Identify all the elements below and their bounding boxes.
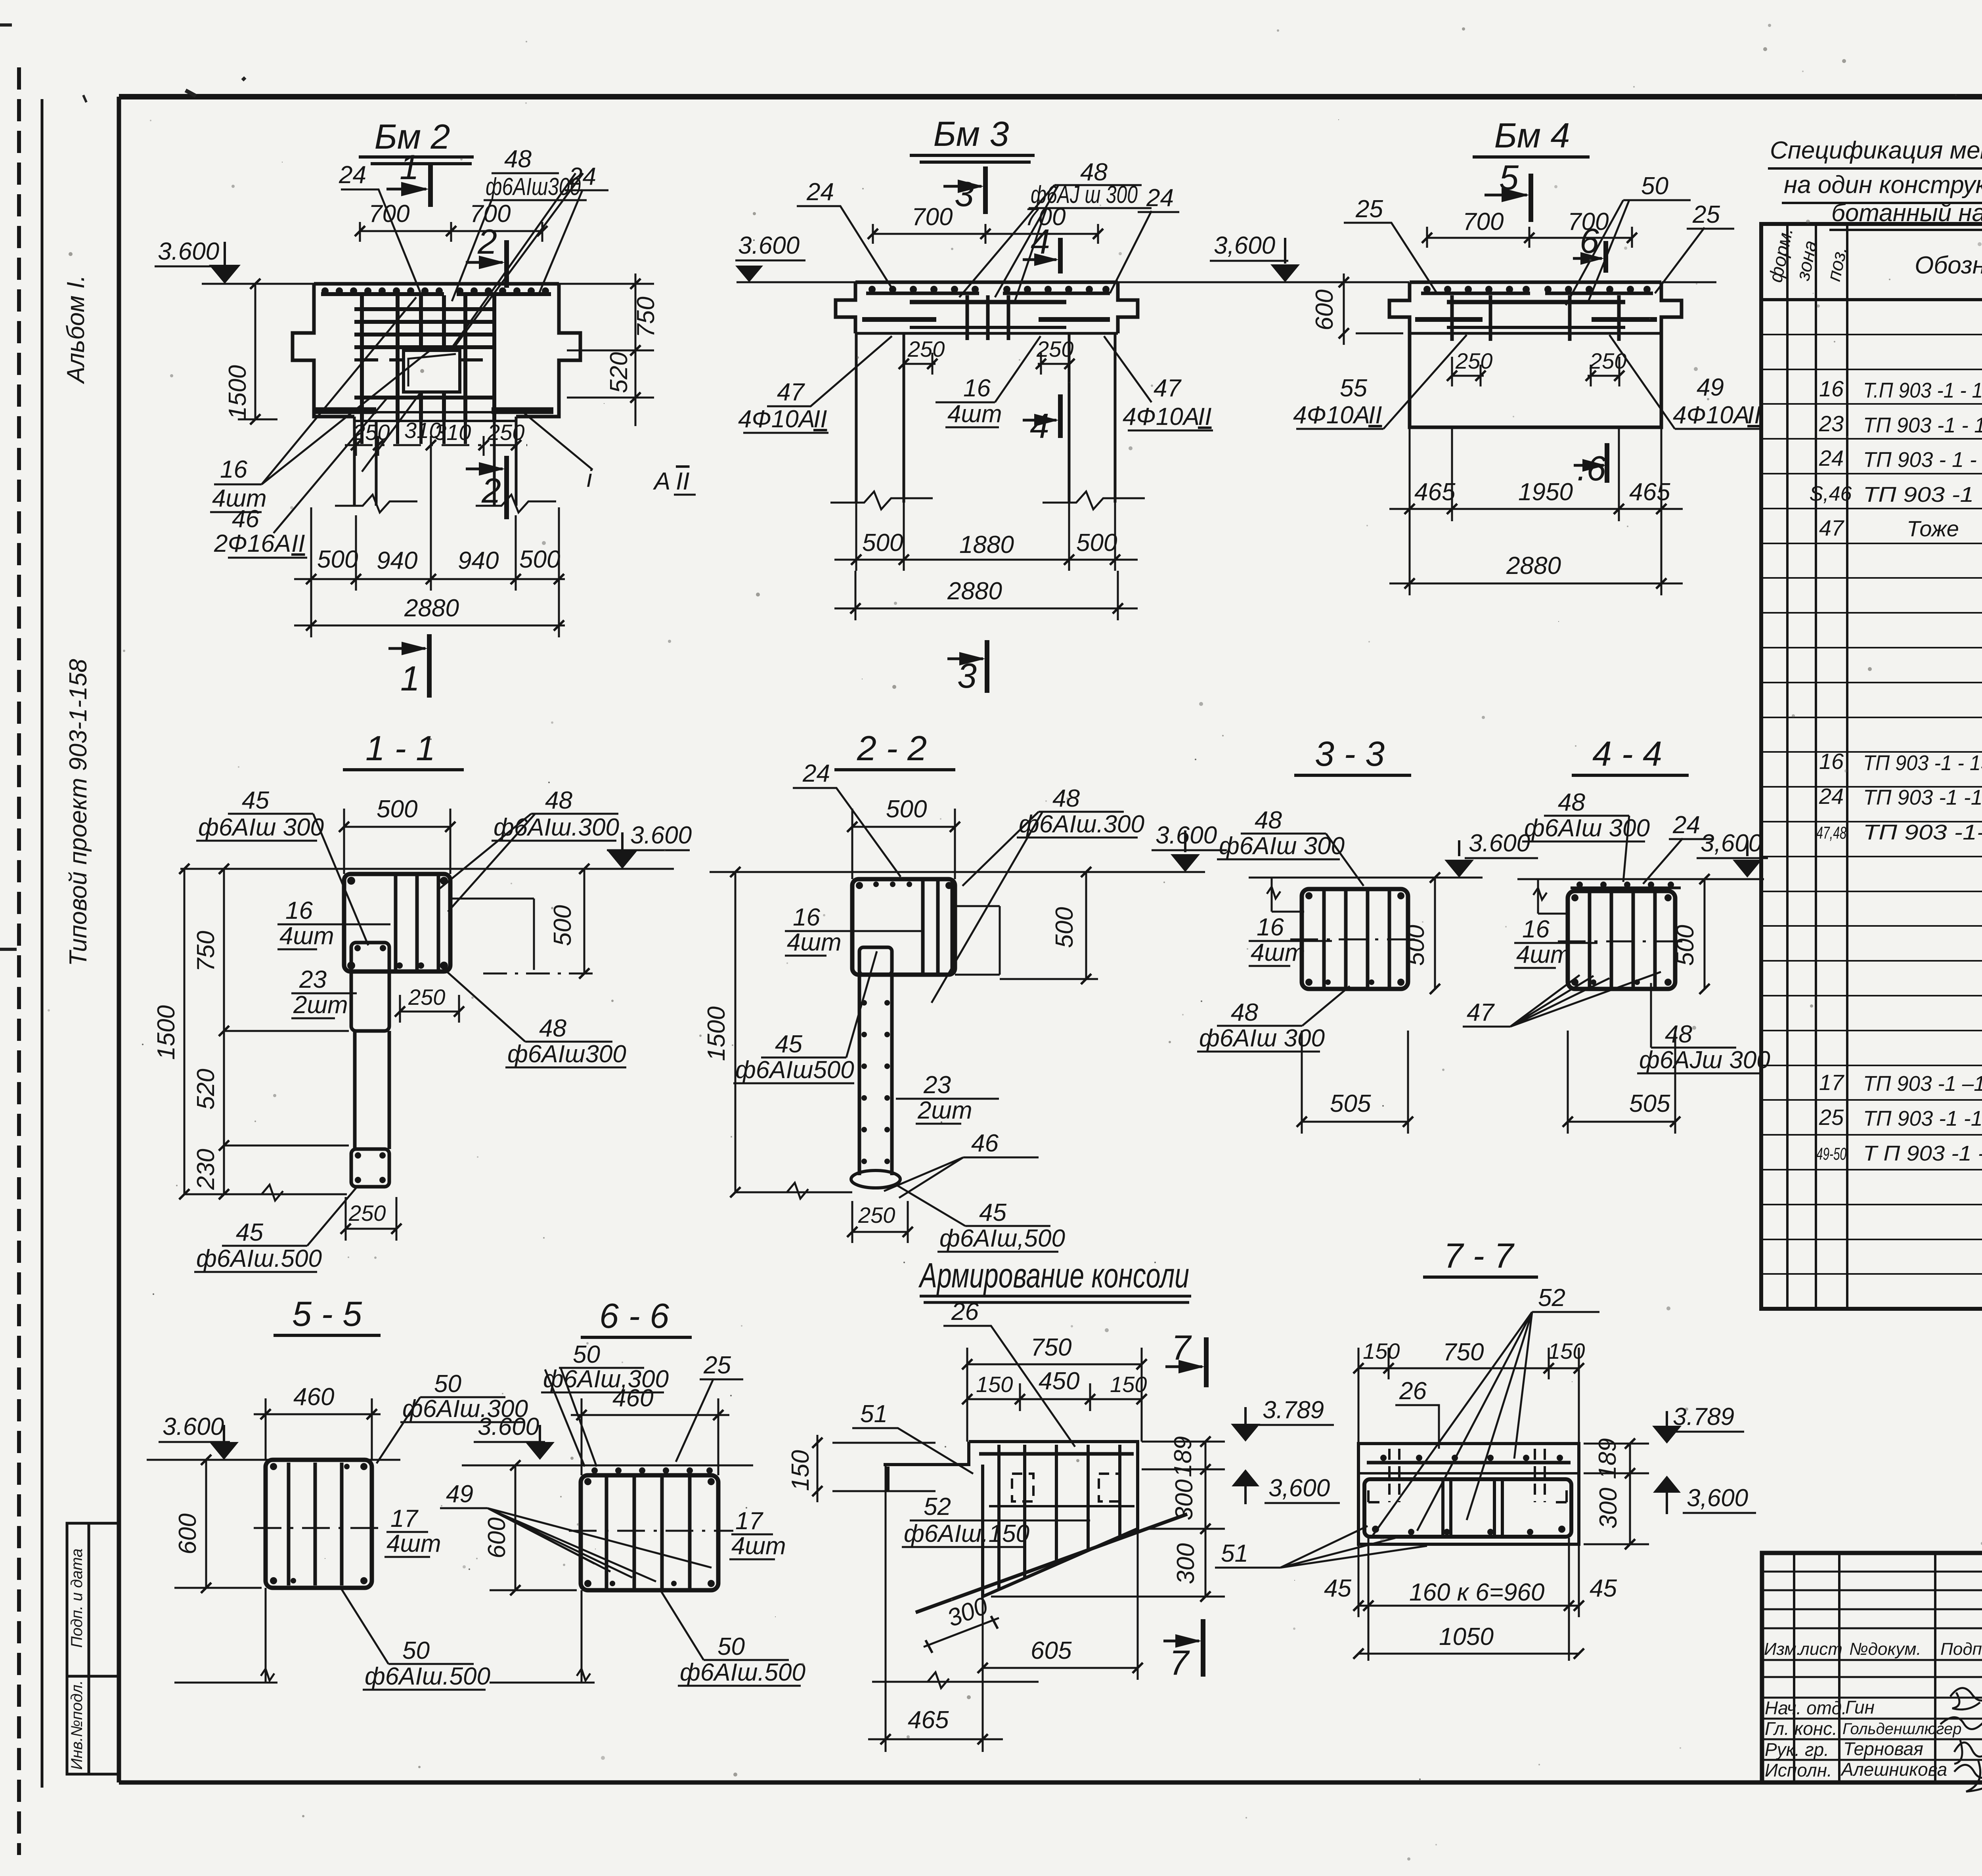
svg-text:№докум.: №докум. <box>1849 1639 1921 1659</box>
svg-text:750: 750 <box>1031 1334 1071 1361</box>
svg-text:500: 500 <box>886 796 927 823</box>
svg-text:Альбом I.: Альбом I. <box>62 275 90 384</box>
svg-text:48: 48 <box>1665 1021 1692 1048</box>
mid axis <box>1558 941 1685 943</box>
svg-text:3.600: 3.600 <box>163 1413 224 1440</box>
section mark 6 bottom <box>1605 443 1609 483</box>
svg-text:на один конструктивный эл: на один конструктивный элемент, разра- <box>1784 171 1982 199</box>
svg-text:II: II <box>813 405 827 433</box>
svg-text:ф6АIш 300: ф6АIш 300 <box>1199 1025 1325 1052</box>
svg-text:А: А <box>652 468 670 495</box>
svg-text:.6: .6 <box>1577 449 1606 488</box>
window <box>404 350 460 392</box>
level line <box>737 281 1288 283</box>
svg-text:5: 5 <box>1499 158 1519 197</box>
dims 189 300 right <box>1584 1444 1649 1544</box>
lower slab band <box>354 412 516 421</box>
svg-text:520: 520 <box>605 352 633 393</box>
dim 500 right <box>1704 879 1706 989</box>
svg-text:Инв.№подл.: Инв.№подл. <box>68 1680 86 1770</box>
dims 189 300 300 right <box>991 1442 1225 1597</box>
svg-text:50: 50 <box>1641 172 1668 200</box>
svg-text:ф6АIш.500: ф6АIш.500 <box>365 1663 490 1690</box>
level line <box>202 283 637 285</box>
svg-text:ТП 903 -1 -153-КЖН - С 29: ТП 903 -1 -153-КЖН - С 29 <box>1863 1107 1982 1130</box>
svg-text:520: 520 <box>192 1069 220 1109</box>
svg-text:4шт: 4шт <box>279 922 334 950</box>
svg-text:4шт: 4шт <box>787 929 842 956</box>
svg-text:23: 23 <box>923 1071 951 1099</box>
top rebar dots <box>321 287 549 294</box>
svg-text:3,600: 3,600 <box>1701 830 1762 857</box>
svg-text:4Ф10А: 4Ф10А <box>1123 403 1200 430</box>
svg-text:3.600: 3.600 <box>738 232 800 259</box>
svg-text:16: 16 <box>1522 916 1550 943</box>
svg-text:16: 16 <box>793 904 820 931</box>
svg-text:4Ф10А: 4Ф10А <box>1673 402 1750 429</box>
svg-text:3: 3 <box>955 174 974 214</box>
svg-text:4шт: 4шт <box>1251 939 1305 966</box>
svg-text:47,48: 47,48 <box>1816 823 1846 843</box>
mid axis <box>1290 939 1419 941</box>
svg-text:3.789: 3.789 <box>1673 1403 1734 1430</box>
slab rebar <box>910 300 1066 304</box>
svg-text:ф6АIш 300: ф6АIш 300 <box>1219 832 1345 860</box>
svg-text:24: 24 <box>806 178 834 206</box>
level line <box>1517 878 1764 880</box>
svg-text:26: 26 <box>1399 1377 1427 1405</box>
svg-text:ф6АJш 300: ф6АJш 300 <box>1639 1046 1770 1074</box>
dim chain left <box>184 869 186 1194</box>
svg-text:48: 48 <box>1052 785 1080 812</box>
svg-text:45: 45 <box>242 787 269 814</box>
dim 500 right <box>584 869 585 973</box>
svg-text:17: 17 <box>390 1505 419 1532</box>
leg break marks <box>830 491 1145 509</box>
svg-text:2: 2 <box>481 471 501 510</box>
svg-text:450: 450 <box>1039 1367 1079 1395</box>
svg-text:1050: 1050 <box>1439 1623 1494 1650</box>
inner thin line <box>41 99 44 1788</box>
svg-text:3.789: 3.789 <box>1263 1396 1324 1424</box>
svg-text:17: 17 <box>1819 1070 1844 1095</box>
section mark 6 top <box>1603 241 1608 273</box>
svg-text:16: 16 <box>963 375 991 402</box>
svg-text:45: 45 <box>979 1199 1006 1226</box>
svg-text:600: 600 <box>483 1517 511 1558</box>
svg-text:48: 48 <box>545 787 572 814</box>
mid bar <box>989 1505 1134 1507</box>
stirrup box <box>1568 891 1675 989</box>
console outline <box>884 1442 1138 1597</box>
svg-text:ТП 903 -1 - 153- КЖН- С 27: ТП 903 -1 - 153- КЖН- С 27 <box>1863 413 1982 437</box>
svg-text:26: 26 <box>951 1298 979 1325</box>
svg-text:750: 750 <box>192 931 220 971</box>
svg-text:300: 300 <box>1172 1543 1200 1584</box>
svg-text:ф6АIш,500: ф6АIш,500 <box>939 1225 1065 1252</box>
svg-text:600: 600 <box>1311 289 1338 330</box>
svg-text:250: 250 <box>858 1203 895 1228</box>
svg-text:48: 48 <box>539 1015 566 1042</box>
svg-text:ф6АIш 300: ф6АIш 300 <box>1524 815 1650 842</box>
dim 600 left <box>205 1460 207 1588</box>
svg-text:3,600: 3,600 <box>1268 1474 1330 1502</box>
stirrup box <box>266 1460 372 1588</box>
svg-text:49-50: 49-50 <box>1816 1144 1846 1164</box>
thick bars 46 <box>316 407 553 414</box>
svg-text:Подп.: Подп. <box>1940 1639 1982 1659</box>
svg-text:24: 24 <box>568 163 596 190</box>
svg-text:46: 46 <box>232 505 259 533</box>
svg-text:460: 460 <box>612 1385 653 1412</box>
svg-text:ТП 903 -1- 158 КЖ -30: ТП 903 -1- 158 КЖ -30 <box>1863 820 1982 844</box>
level line <box>462 1465 753 1467</box>
svg-text:23: 23 <box>299 966 327 993</box>
svg-text:47: 47 <box>777 379 805 406</box>
svg-text:3: 3 <box>957 656 977 695</box>
svg-text:52: 52 <box>1538 1284 1565 1312</box>
svg-text:2Ф16А: 2Ф16А <box>214 530 291 557</box>
svg-text:Рук. гр.: Рук. гр. <box>1765 1739 1829 1760</box>
svg-text:ф6АIш.500: ф6АIш.500 <box>196 1245 322 1272</box>
svg-text:ф6АIш300: ф6АIш300 <box>507 1040 626 1068</box>
svg-text:Тоже: Тоже <box>1907 516 1959 541</box>
legs <box>856 333 1115 503</box>
dim 500 right <box>1434 878 1436 989</box>
svg-text:Армирование консоли: Армирование консоли <box>918 1256 1189 1295</box>
svg-text:Гин: Гин <box>1845 1697 1875 1717</box>
svg-text:ТП 903 - 1 - 153- КЖИ-С28: ТП 903 - 1 - 153- КЖИ-С28 <box>1863 448 1982 472</box>
svg-text:3.600: 3.600 <box>478 1413 539 1440</box>
svg-text:505: 505 <box>1330 1090 1371 1117</box>
svg-text:150: 150 <box>1363 1339 1400 1363</box>
svg-text:Обозначение: Обозначение <box>1915 252 1982 279</box>
svg-text:Бм 4: Бм 4 <box>1494 116 1570 155</box>
svg-text:940: 940 <box>377 547 417 574</box>
svg-text:1: 1 <box>400 659 420 698</box>
svg-text:4Ф10А: 4Ф10А <box>738 405 815 433</box>
svg-text:940: 940 <box>458 547 499 574</box>
svg-text:Исполн.: Исполн. <box>1765 1760 1832 1780</box>
svg-text:Терновая: Терновая <box>1843 1738 1923 1759</box>
svg-text:Изм.: Изм. <box>1764 1639 1801 1659</box>
svg-text:700: 700 <box>470 200 511 228</box>
slab rebar <box>1447 300 1625 304</box>
svg-text:310: 310 <box>434 420 471 445</box>
svg-text:Нач. отд.: Нач. отд. <box>1765 1698 1847 1718</box>
sheet frame <box>119 94 1982 99</box>
svg-text:ф6АIш.500: ф6АIш.500 <box>680 1659 805 1686</box>
svg-text:25: 25 <box>1355 195 1383 223</box>
top dots <box>1576 882 1674 888</box>
svg-text:Т.П 903 -1 - 153- КЖИ - КР19: Т.П 903 -1 - 153- КЖИ - КР19 <box>1863 379 1982 402</box>
body outline <box>293 284 580 417</box>
svg-text:750: 750 <box>1443 1339 1484 1366</box>
svg-text:150: 150 <box>1110 1372 1147 1397</box>
svg-text:3 - 3: 3 - 3 <box>1315 734 1385 773</box>
svg-text:23: 23 <box>1819 411 1844 436</box>
svg-text:3,600: 3,600 <box>1687 1484 1748 1512</box>
svg-text:3,600: 3,600 <box>1214 232 1275 259</box>
svg-text:4: 4 <box>1031 222 1050 261</box>
svg-text:160 к 6=960: 160 к 6=960 <box>1409 1579 1544 1606</box>
svg-text:500: 500 <box>519 546 560 573</box>
svg-text:1 - 1: 1 - 1 <box>365 729 435 768</box>
title block frame <box>1762 1553 1982 1782</box>
svg-text:4шт: 4шт <box>947 400 1002 428</box>
inv box <box>67 1523 119 1774</box>
svg-text:2шт: 2шт <box>917 1097 972 1124</box>
svg-text:25: 25 <box>1819 1105 1844 1130</box>
dim 150 left <box>817 1435 936 1502</box>
level line <box>1249 877 1483 879</box>
svg-text:24: 24 <box>1819 446 1844 470</box>
svg-text:16: 16 <box>285 897 313 924</box>
svg-text:750: 750 <box>632 296 660 337</box>
svg-text:S,46: S,46 <box>1810 482 1852 505</box>
mid axis <box>254 1527 386 1529</box>
top rebar <box>1367 1461 1571 1465</box>
diagonal bar 51 <box>916 1514 1187 1612</box>
svg-text:189: 189 <box>1169 1436 1197 1477</box>
svg-text:25: 25 <box>703 1352 731 1379</box>
svg-text:ф6АIш.300: ф6АIш.300 <box>1019 811 1144 838</box>
svg-text:700: 700 <box>369 200 409 228</box>
lower ext <box>261 1588 274 1683</box>
level line <box>1235 281 1716 283</box>
svg-text:150: 150 <box>787 1450 814 1491</box>
svg-text:Типовой проект 903-1-158: Типовой проект 903-1-158 <box>65 659 92 966</box>
dim 600 left <box>1344 273 1403 345</box>
svg-text:Гл. конс.: Гл. конс. <box>1765 1718 1837 1739</box>
svg-text:48: 48 <box>1255 807 1282 834</box>
svg-text:189: 189 <box>1594 1438 1621 1479</box>
column strip <box>355 1031 389 1149</box>
svg-text:1880: 1880 <box>959 531 1014 558</box>
top bar in slab <box>979 1452 1134 1456</box>
top dots <box>591 1467 713 1474</box>
svg-text:500: 500 <box>1051 907 1078 948</box>
break mark left <box>1533 879 1547 914</box>
top rebar dots <box>869 286 1110 293</box>
svg-text:7: 7 <box>1169 1643 1190 1682</box>
svg-text:45: 45 <box>1590 1575 1617 1602</box>
svg-text:700: 700 <box>1463 208 1504 235</box>
svg-text:ТП 903 -1 - 15 3-КЖН -КР 19: ТП 903 -1 - 15 3-КЖН -КР 19 <box>1863 751 1982 775</box>
svg-text:1: 1 <box>400 147 419 187</box>
stirrup box <box>1302 889 1408 989</box>
level line <box>710 871 1205 873</box>
svg-text:505: 505 <box>1629 1090 1670 1117</box>
svg-text:4шт: 4шт <box>1516 941 1571 968</box>
svg-text:4 - 4: 4 - 4 <box>1592 734 1662 773</box>
svg-text:1500: 1500 <box>224 365 251 420</box>
svg-text:50: 50 <box>717 1633 745 1660</box>
stirrup box inner <box>1364 1479 1571 1537</box>
section mark 7 top <box>1204 1337 1209 1387</box>
svg-text:Бм 3: Бм 3 <box>934 114 1009 153</box>
level line <box>180 868 674 870</box>
svg-text:2880: 2880 <box>1506 552 1561 579</box>
svg-text:16: 16 <box>1819 749 1844 774</box>
dim 1500 left <box>238 284 313 419</box>
table frame <box>1761 224 1982 1309</box>
inner box 45 <box>351 943 389 1031</box>
svg-text:1950: 1950 <box>1518 478 1573 506</box>
svg-text:230: 230 <box>192 1149 220 1190</box>
svg-text:605: 605 <box>1031 1637 1072 1664</box>
svg-text:465: 465 <box>908 1706 949 1734</box>
svg-text:500: 500 <box>862 529 903 556</box>
svg-text:ф6АIш500: ф6АIш500 <box>735 1056 854 1084</box>
svg-text:51: 51 <box>860 1400 888 1428</box>
level line <box>147 1459 400 1461</box>
svg-text:500: 500 <box>1672 925 1699 966</box>
row rules <box>1761 335 1982 1274</box>
section mark 2 bottom <box>504 456 509 519</box>
svg-text:2880: 2880 <box>947 578 1002 605</box>
svg-text:ф6АIш.150: ф6АIш.150 <box>904 1520 1029 1547</box>
section mark 1 bottom <box>427 634 432 698</box>
body outline <box>1389 282 1682 427</box>
svg-text:16: 16 <box>1819 376 1844 401</box>
dim 600 left <box>515 1465 517 1590</box>
svg-text:24: 24 <box>1146 184 1174 212</box>
svg-text:465: 465 <box>1629 478 1670 506</box>
svg-text:5 - 5: 5 - 5 <box>292 1294 362 1333</box>
svg-text:50: 50 <box>402 1637 430 1664</box>
svg-text:500: 500 <box>317 546 358 573</box>
svg-text:50: 50 <box>434 1370 461 1398</box>
mesh horizontals <box>354 309 494 347</box>
svg-text:ф6АIш.300: ф6АIш.300 <box>494 814 619 841</box>
svg-text:49: 49 <box>446 1480 473 1508</box>
svg-text:II: II <box>1198 403 1211 430</box>
ledge outline right <box>955 906 1000 975</box>
dashed bars 26 <box>1012 1474 1033 1501</box>
svg-text:4Ф10А: 4Ф10А <box>1293 402 1370 429</box>
svg-text:3.600: 3.600 <box>158 238 219 265</box>
ledge outline right <box>450 899 534 970</box>
legs <box>354 417 516 506</box>
signatures <box>1950 1688 1982 1710</box>
bottom ellipse <box>851 1170 900 1188</box>
svg-text:24: 24 <box>339 161 366 189</box>
smudge top left <box>186 78 245 96</box>
svg-text:Спецификация металлических: Спецификация металлических изделий <box>1770 137 1982 164</box>
svg-text:ТП 903 -1 –153-КЖИ-КР 20: ТП 903 -1 –153-КЖИ-КР 20 <box>1863 1072 1982 1096</box>
section mark 2 top <box>504 240 509 288</box>
svg-text:2 - 2: 2 - 2 <box>857 729 927 768</box>
svg-text:4шт: 4шт <box>386 1530 441 1557</box>
wall below <box>886 1465 983 1752</box>
svg-text:47: 47 <box>1467 999 1495 1026</box>
svg-text:4шт: 4шт <box>731 1532 786 1560</box>
svg-text:50: 50 <box>573 1341 600 1368</box>
svg-text:250: 250 <box>907 337 945 361</box>
dim 500 right <box>1085 872 1087 979</box>
svg-text:250: 250 <box>408 985 445 1010</box>
svg-text:500: 500 <box>1076 529 1117 556</box>
svg-text:48: 48 <box>1231 999 1258 1026</box>
svg-text:ф6АIш 300: ф6АIш 300 <box>198 814 324 841</box>
dashed bars 26 <box>1389 1449 1545 1502</box>
svg-text:2шт: 2шт <box>293 991 348 1019</box>
top stirrup box <box>852 879 955 975</box>
svg-text:52: 52 <box>924 1493 951 1520</box>
svg-text:24: 24 <box>802 760 830 787</box>
svg-text:25: 25 <box>1692 201 1720 228</box>
svg-text:48: 48 <box>1558 789 1585 816</box>
svg-text:16: 16 <box>220 456 247 483</box>
svg-text:48: 48 <box>504 145 532 173</box>
section mark 5 top <box>1529 174 1533 222</box>
dashed edge line <box>17 67 21 1855</box>
mid axis <box>569 1530 733 1532</box>
svg-text:300: 300 <box>1595 1488 1622 1528</box>
svg-text:Т П 903 -1 - 158 - КЖ -30: Т П 903 -1 - 158 - КЖ -30 <box>1863 1142 1982 1165</box>
svg-text:150: 150 <box>976 1372 1013 1397</box>
svg-text:1500: 1500 <box>703 1006 730 1061</box>
section mark 4 top <box>1058 238 1063 273</box>
svg-text:500: 500 <box>1402 925 1429 966</box>
svg-text:700: 700 <box>912 203 953 231</box>
lower ext <box>577 1590 590 1683</box>
mesh verticals <box>362 295 494 421</box>
svg-text:51: 51 <box>1221 1540 1248 1567</box>
svg-text:16: 16 <box>1257 914 1284 941</box>
svg-text:600: 600 <box>174 1513 201 1554</box>
svg-text:6 - 6: 6 - 6 <box>599 1296 669 1335</box>
svg-text:4: 4 <box>1030 406 1049 446</box>
svg-text:45: 45 <box>1324 1575 1351 1602</box>
svg-text:7: 7 <box>1171 1328 1192 1367</box>
svg-text:3.600: 3.600 <box>630 822 692 849</box>
svg-text:7 - 7: 7 - 7 <box>1444 1236 1515 1275</box>
inner verticals <box>1443 1481 1502 1535</box>
bar 51 hook <box>886 1467 890 1491</box>
svg-text:45: 45 <box>236 1219 263 1246</box>
outer box <box>1358 1444 1579 1544</box>
svg-text:II: II <box>1747 402 1761 429</box>
dim 1500 left <box>735 872 737 1192</box>
svg-text:II: II <box>291 530 305 557</box>
svg-text:250: 250 <box>352 420 390 445</box>
svg-text:45: 45 <box>775 1031 802 1058</box>
svg-text:300: 300 <box>1171 1479 1198 1520</box>
section mark 4 bottom <box>1058 394 1063 438</box>
dim 750 520 right <box>567 273 654 426</box>
slab outline <box>836 282 1138 333</box>
top rebar dots <box>1423 286 1651 293</box>
leg break marks <box>335 495 556 513</box>
svg-text:250: 250 <box>1455 348 1492 373</box>
svg-text:2880: 2880 <box>404 595 459 622</box>
top stirrup box <box>344 874 450 971</box>
svg-text:500: 500 <box>377 796 417 823</box>
svg-text:17: 17 <box>735 1507 763 1535</box>
svg-text:460: 460 <box>293 1383 334 1411</box>
bottom box <box>351 1149 389 1187</box>
section mark 7 bottom <box>1201 1619 1205 1677</box>
svg-text:49: 49 <box>1697 374 1724 401</box>
column <box>859 975 892 1175</box>
svg-text:47: 47 <box>1819 515 1844 540</box>
svg-text:лист: лист <box>1798 1639 1842 1659</box>
section mark 3 top <box>983 166 988 214</box>
fold marks left <box>0 25 17 949</box>
svg-text:500: 500 <box>549 905 576 946</box>
